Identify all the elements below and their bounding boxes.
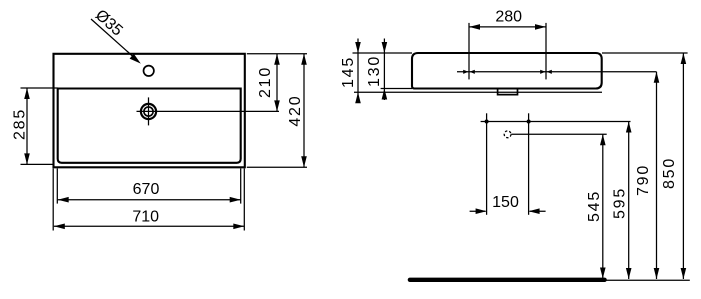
drain notch [498,89,518,95]
drain 545 reference line [511,133,606,135]
top right extension [602,52,688,54]
dim 420 arrow up [301,54,307,65]
svg-text:150: 150 [492,194,519,211]
svg-text:420: 420 [287,95,304,127]
dim 670 arrow right [230,197,241,203]
dim 420 line [303,54,305,168]
fixing holes centerline [457,71,657,73]
leader line O35 [91,19,133,57]
top-right extension line [247,53,307,55]
dim 710 extension left [52,169,54,231]
fixing hole left mark [463,70,468,74]
fixing hole right mark [540,70,545,74]
dim 150 arrow right [530,210,546,212]
dim 545 arrow up [600,134,606,145]
dim 210 line [276,54,278,112]
svg-text:545: 545 [586,190,603,222]
dim 145 line [357,39,359,101]
dim 710 line [54,225,245,227]
svg-text:210: 210 [257,66,274,98]
dim 420 arrow down [301,156,307,167]
dim 280 arrow left [469,24,480,30]
dim 280 extension right [545,23,547,80]
left bottom extension [381,88,412,90]
floor line thin [605,279,690,281]
svg-text:285: 285 [11,108,28,140]
drain outer circle [141,104,156,119]
supply pipe right [528,113,530,215]
notch reference line [354,91,602,93]
supply node right [527,120,531,124]
bottom-right extension line [247,166,307,168]
dim 130 arrow up [382,89,388,100]
dim 545 arrow down [600,268,606,279]
dim 790 line [656,72,658,279]
supply pipe left [486,113,488,215]
svg-text:595: 595 [612,187,629,219]
supply node left [485,120,489,124]
dim 210 arrow up [274,54,280,65]
dim 145 arrow up [355,92,361,103]
dim 850 arrow up [681,53,687,64]
svg-text:280: 280 [495,9,522,26]
svg-text:850: 850 [661,157,678,189]
dim 710 extension right [243,169,245,231]
dim 670 arrow left [58,197,69,203]
dim 790 arrow down [654,268,660,279]
leader arrowhead [130,54,141,64]
svg-text:130: 130 [366,55,383,87]
dim 670 extension left [56,169,58,204]
dim 790 arrow up [654,72,660,83]
dim 145 arrow down [355,42,361,53]
drain centerline vertical [148,97,150,125]
dim 595 line [628,122,630,280]
basin inner bowl [58,89,241,163]
dim 280 arrow right [535,24,546,30]
dim 150 arrow left [470,210,486,212]
dim 210 arrow down [274,100,280,111]
dim 285 arrow up [24,88,30,99]
dim 710 arrow right [233,224,244,230]
floor line thick [410,278,605,282]
drain pipe dashed circle [504,131,511,138]
dim 595 arrow down [626,268,632,279]
basin outer rim [54,54,245,168]
dim 285 extension bottom [21,163,54,165]
svg-text:670: 670 [133,181,160,198]
faucet hole [144,66,154,76]
svg-text:790: 790 [635,164,652,196]
dim 595 arrow up [626,122,632,133]
dim 285 arrow down [24,153,30,164]
dim 285 extension top [21,87,58,89]
dim 545 line [602,134,604,278]
dim 850 arrow down [681,268,687,279]
dim 130 line [383,39,385,101]
trap connection line 595 reference [481,121,631,123]
dim 670 extension right [240,169,242,204]
svg-text:710: 710 [132,208,159,225]
dim 850 line [682,53,684,279]
basin side profile [412,53,602,89]
dim 710 arrow left [54,224,65,230]
drain centerline horizontal / 210 reference [137,110,280,112]
dim 280 extension left [468,23,470,80]
drain inner circle [144,107,153,116]
dim 285 line [26,88,28,164]
left top extension [353,52,413,54]
svg-text:145: 145 [340,56,357,88]
dim 280 line [469,26,546,28]
dim 130 arrow down [382,42,388,53]
dim 670 line [58,199,241,201]
